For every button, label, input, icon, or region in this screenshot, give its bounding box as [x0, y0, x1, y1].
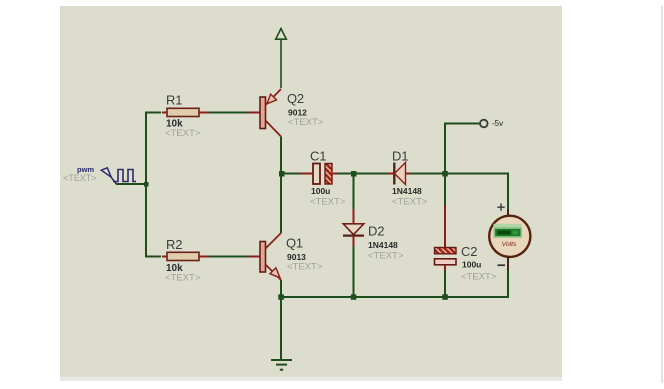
wire: right branch down to voltmeter	[507, 173, 509, 210]
svg-text:<TEXT>: <TEXT>	[165, 273, 201, 284]
junction node C (C2 top / -5v)	[442, 171, 448, 177]
wire: R1 right to Q2 base	[210, 112, 250, 114]
wire: Q2 collector down to node A	[280, 137, 282, 175]
wire: R2 right to Q1 base	[210, 256, 250, 258]
wire: ground drop	[280, 297, 282, 360]
wire: C1 to node B	[338, 173, 388, 175]
svg-text:<TEXT>: <TEXT>	[368, 251, 404, 262]
junction rail at D2	[351, 294, 357, 300]
svg-text:R2: R2	[166, 237, 182, 252]
junction rail at C2	[442, 294, 448, 300]
svg-text:-5v: -5v	[492, 119, 503, 128]
resistor R2	[162, 252, 210, 260]
svg-text:Volts: Volts	[502, 241, 517, 248]
svg-text:1N4148: 1N4148	[368, 240, 398, 250]
power arrow +V	[276, 29, 287, 89]
wire: bottom rail	[281, 296, 509, 298]
svg-text:<TEXT>: <TEXT>	[310, 197, 346, 208]
junction node B (D2 top)	[351, 171, 357, 177]
junction rail at Q1 emitter	[278, 294, 284, 300]
svg-text:<TEXT>: <TEXT>	[288, 117, 324, 128]
svg-text:100u: 100u	[462, 260, 481, 270]
resistor R1	[162, 108, 210, 116]
wire: pwm input to bus	[116, 183, 147, 185]
wire: Q1 emitter down to rail	[280, 280, 282, 297]
svg-text:Q2: Q2	[287, 91, 304, 106]
transistor Q1 (NPN 9013)	[249, 233, 282, 280]
wire: voltmeter bottom to rail	[507, 270, 509, 298]
junction pwm-bus	[144, 182, 149, 187]
transistor Q2 (PNP 9012)	[249, 89, 282, 137]
ground	[271, 360, 292, 370]
junction node A	[279, 171, 285, 177]
svg-text:<TEXT>: <TEXT>	[165, 128, 201, 139]
svg-text:<TEXT>: <TEXT>	[287, 262, 323, 273]
capacitor C2 (100u polarized)	[435, 205, 457, 271]
svg-text:R1: R1	[166, 93, 182, 108]
wire: node A to C1	[281, 173, 301, 175]
svg-text:D2: D2	[368, 224, 384, 239]
svg-text:C1: C1	[310, 149, 326, 164]
wire: R2 left horizontal	[145, 256, 161, 258]
input terminal pwm	[101, 168, 116, 184]
svg-text:9012: 9012	[288, 108, 307, 118]
svg-text:100u: 100u	[311, 186, 330, 196]
svg-text:Q1: Q1	[286, 236, 303, 251]
svg-text:D1: D1	[392, 149, 408, 164]
svg-text:1N4148: 1N4148	[392, 186, 422, 196]
voltmeter U1	[489, 209, 530, 270]
wire: R1 left horizontal	[145, 112, 161, 114]
plus sign voltmeter	[497, 204, 504, 211]
wire: D1 to right corner	[411, 173, 509, 175]
wire: left vertical bus R1/R2/pwm	[145, 113, 147, 257]
diode D2 (1N4148)	[343, 209, 364, 246]
wire: node B down to D2	[353, 174, 355, 210]
wire: D2 down to bottom rail	[353, 246, 355, 297]
capacitor C1 (100u polarized)	[301, 164, 339, 185]
svg-text:C2: C2	[461, 244, 477, 259]
terminal -5v	[480, 120, 488, 128]
wire: node C up to -5v terminal	[445, 124, 480, 174]
wire: C2 top to node C	[444, 174, 446, 206]
svg-text:9013: 9013	[287, 252, 306, 262]
svg-text:<TEXT>: <TEXT>	[392, 197, 428, 208]
svg-text:<TEXT>: <TEXT>	[461, 272, 497, 283]
pwm waveform symbol	[113, 170, 136, 182]
svg-text:<TEXT>: <TEXT>	[63, 173, 97, 183]
minus sign voltmeter	[498, 264, 506, 266]
diode D1 (1N4148)	[388, 163, 411, 185]
wire: C2 bottom to rail	[444, 271, 446, 298]
wire: node A down to Q1 collector	[280, 174, 282, 233]
